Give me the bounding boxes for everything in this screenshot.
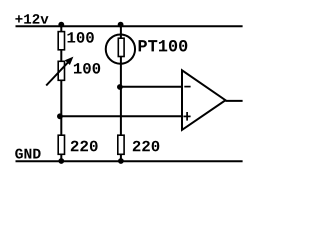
junction dot PT100 branch to inverting input bbox=[117, 84, 123, 90]
label PT100 bbox=[139, 40, 188, 51]
ground rail wire bbox=[16, 160, 243, 162]
op-amp plus sign bbox=[183, 116, 190, 118]
PT100 sensor circle bbox=[106, 34, 135, 63]
label GND bbox=[15, 149, 40, 159]
op-amp triangle bbox=[182, 70, 226, 130]
junction dot ground rail left branch bbox=[58, 158, 64, 164]
variable resistor arrow bbox=[46, 60, 70, 85]
label +12V bbox=[15, 14, 48, 23]
wire to op-amp non-inverting input bbox=[61, 115, 182, 117]
resistor 100 fixed (top left) body bbox=[58, 32, 64, 50]
resistor 220 right body bbox=[118, 135, 124, 154]
junction dot top rail left branch bbox=[58, 22, 64, 28]
resistor 100 variable body bbox=[58, 61, 64, 80]
wire PT100 branch vertical bbox=[120, 26, 122, 161]
wire left branch vertical bbox=[60, 26, 62, 161]
+12V power rail wire bbox=[16, 25, 243, 27]
op-amp minus sign bbox=[184, 86, 190, 88]
junction dot top rail PT100 branch bbox=[118, 22, 124, 28]
label 220 left bbox=[71, 141, 98, 152]
junction dot left branch to non-inverting input bbox=[57, 113, 63, 119]
label 100 top resistor bbox=[68, 32, 94, 43]
label 100 variable resistor bbox=[74, 63, 100, 74]
resistor 220 left body bbox=[58, 135, 64, 154]
wire to op-amp inverting input bbox=[121, 86, 182, 88]
label 220 right bbox=[133, 141, 160, 152]
junction dot ground rail PT100 branch bbox=[118, 158, 124, 164]
wire op-amp output bbox=[226, 100, 243, 102]
PT100 sensor inner resistor body bbox=[118, 38, 124, 56]
